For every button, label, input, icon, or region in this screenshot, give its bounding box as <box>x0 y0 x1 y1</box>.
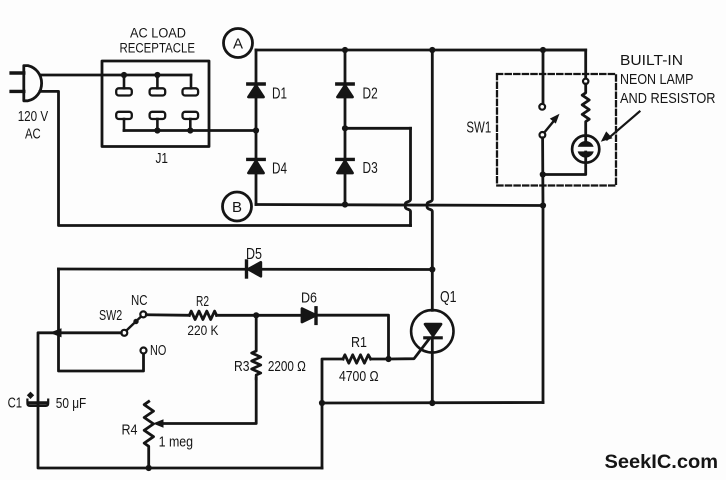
wire D2-D3 midpoint to right column <box>345 127 411 130</box>
svg-text:RECEPTACLE: RECEPTACLE <box>120 40 196 55</box>
svg-text:R4: R4 <box>122 421 138 438</box>
resistor R2 <box>189 311 216 319</box>
junction dot bus left <box>319 400 325 406</box>
wire plug top to receptacle <box>41 74 192 77</box>
C1 plus sign <box>27 392 34 399</box>
node B circle <box>223 192 252 221</box>
label B <box>232 199 242 216</box>
wire cathode bus row <box>322 401 543 404</box>
label NC <box>131 293 148 309</box>
wire R3 bottom to R4 wiper <box>160 379 256 424</box>
wire SW2 pole to C1 <box>38 333 121 402</box>
receptacle contact 3 top <box>183 88 199 95</box>
wire R1 left leg <box>322 359 343 468</box>
label D2 <box>363 86 378 103</box>
wire right AC column with jog over bottom rail <box>405 128 410 225</box>
svg-text:BUILT-IN: BUILT-IN <box>620 53 683 69</box>
junction dot top rail at D2 <box>342 47 348 53</box>
wire lamp bottom return to SW1 <box>543 152 586 175</box>
wire SW1 leg lower <box>541 138 544 403</box>
svg-text:AND RESISTOR: AND RESISTOR <box>620 91 716 107</box>
svg-text:D4: D4 <box>272 161 287 178</box>
label D6 <box>301 289 317 306</box>
receptacle contact 5 bottom <box>150 112 166 119</box>
node A circle <box>224 29 253 58</box>
wire D5 row <box>59 268 433 271</box>
label 120 V AC <box>18 109 49 143</box>
receptacle contact 1 top <box>116 88 132 95</box>
junction dot bottom wire c5 <box>154 127 160 133</box>
svg-text:SW2: SW2 <box>99 308 122 324</box>
switch SW2 lever <box>126 317 141 331</box>
label NO <box>150 343 166 359</box>
receptacle contact 2 top <box>150 88 166 95</box>
svg-text:50 μF: 50 μF <box>56 395 87 412</box>
label SW1 <box>466 120 491 137</box>
wire plug bottom down-right to bridge midpoint (long bottom AC wire) <box>40 91 411 225</box>
switch SW2 lever pivot dot <box>133 319 138 324</box>
svg-text:NO: NO <box>150 343 166 359</box>
svg-text:D2: D2 <box>363 86 378 103</box>
switch SW1 lever arrow <box>545 114 560 133</box>
wire Q1 cathode down <box>431 338 434 403</box>
junction dot SW1 lamp return <box>540 171 546 177</box>
diode D5 (points left) <box>247 261 261 277</box>
svg-text:SW1: SW1 <box>466 120 491 137</box>
junction arrow at left vertical <box>49 328 61 337</box>
wire lamp branch drop <box>584 50 587 79</box>
svg-text:C1: C1 <box>8 395 23 412</box>
svg-text:A: A <box>233 36 243 53</box>
label A <box>233 36 243 53</box>
junction dot cathode bus <box>429 400 435 406</box>
svg-text:Q1: Q1 <box>440 289 457 306</box>
svg-text:D3: D3 <box>363 160 378 177</box>
svg-text:D1: D1 <box>272 86 287 103</box>
junction dot R2/R3/D6 <box>253 312 259 318</box>
potentiometer R4 <box>144 402 153 469</box>
label R4 value 1 meg <box>122 421 194 450</box>
svg-text:R2: R2 <box>196 293 209 310</box>
wire bridge top rail <box>256 49 585 52</box>
wire top rail to lamp corner <box>543 49 586 52</box>
switch SW2 NO terminal <box>141 348 147 354</box>
diode D4 <box>248 159 264 173</box>
label AC LOAD RECEPTACLE <box>120 25 196 55</box>
lead contact2 top <box>156 75 159 88</box>
plug prong bottom <box>11 90 24 93</box>
lead contact6 bottom <box>189 119 192 131</box>
junction dot R4 bottom <box>146 465 152 471</box>
dashed enclosure SW1/lamp <box>497 74 616 186</box>
diode D3 <box>337 159 353 173</box>
diode D1 <box>248 84 264 97</box>
diode D6 (points right) <box>302 308 316 324</box>
junction dot top rail at Q1 column <box>429 47 435 53</box>
wire NC to R2 <box>146 313 189 316</box>
resistor R3 (vertical) <box>252 315 261 378</box>
junction dot left leg receptacle <box>253 127 259 133</box>
label Q1 <box>440 289 457 306</box>
svg-text:NC: NC <box>131 293 148 309</box>
junction dot top wire c2 <box>154 72 160 78</box>
SCR Q1 <box>411 310 453 352</box>
switch SW1 lower terminal <box>540 132 546 138</box>
wire D6 to R1 right leg <box>316 315 389 359</box>
receptacle contact 4 bottom <box>116 112 132 119</box>
lead contact4 bottom <box>123 119 126 131</box>
switch SW2 NC terminal <box>140 311 146 317</box>
svg-text:1 meg: 1 meg <box>159 434 194 450</box>
junction dot R1 right / gate <box>385 356 391 362</box>
svg-text:4700 Ω: 4700 Ω <box>339 368 379 385</box>
svg-text:SeekIC.com: SeekIC.com <box>605 451 719 473</box>
junction dot Q1 column at D5 wire <box>429 266 435 272</box>
svg-text:J1: J1 <box>156 150 169 167</box>
receptacle box J1 <box>102 61 209 147</box>
wire R1 right to Q1 gate <box>371 339 430 360</box>
lamp branch terminal circle <box>583 79 588 84</box>
R4 wiper arrowhead <box>153 419 164 428</box>
annotation arrow to lamp <box>601 112 640 142</box>
lead contact5 bottom <box>156 119 159 131</box>
label BUILT-IN NEON LAMP AND RESISTOR <box>620 53 716 107</box>
svg-text:AC: AC <box>25 127 41 143</box>
wire D5 left drop <box>59 269 144 371</box>
wire R2 to D6 <box>217 314 302 317</box>
junction dot bottom wire c6 <box>187 127 193 133</box>
svg-text:AC LOAD: AC LOAD <box>130 25 186 40</box>
label R2 value 220 K <box>187 293 218 338</box>
resistor R1 <box>343 355 371 363</box>
label C1 value 50 uF <box>8 395 87 412</box>
svg-text:R1: R1 <box>351 334 367 351</box>
diode D2 <box>337 84 353 97</box>
label D1 <box>272 86 287 103</box>
label SW2 <box>99 308 122 324</box>
label R1 value 4700 ohm <box>339 334 379 385</box>
label R3 value 2200 ohm <box>234 358 306 375</box>
junction dot bottom rail at SW1 leg <box>540 202 546 208</box>
wire bridge second leg <box>344 50 347 205</box>
svg-text:220 K: 220 K <box>187 323 218 338</box>
svg-text:120 V: 120 V <box>18 109 49 125</box>
junction dot D2-D3 midpoint <box>342 125 348 131</box>
junction dot top rail at SW1 <box>540 47 546 53</box>
label J1 <box>156 150 169 167</box>
svg-text:B: B <box>232 199 242 216</box>
svg-text:D5: D5 <box>246 246 262 263</box>
wire SW1 leg upper <box>542 50 545 104</box>
switch SW2 pole terminal <box>121 330 127 336</box>
label D5 <box>246 246 262 263</box>
lead contact3 top corner <box>190 75 193 88</box>
plug prong top <box>11 71 24 74</box>
resistor (neon built-in) zigzag <box>582 84 589 146</box>
wire Q1 column top with jog over bottom rail <box>427 50 432 310</box>
wire receptacle bottom row to bridge node <box>124 129 256 132</box>
label D3 <box>363 160 378 177</box>
neon lamp NE1 <box>572 136 599 163</box>
lead contact1 top <box>123 75 126 88</box>
plug P1 (120V AC plug body) <box>24 66 42 101</box>
svg-text:2200 Ω: 2200 Ω <box>268 358 306 375</box>
svg-text:D6: D6 <box>301 289 317 306</box>
svg-text:R3: R3 <box>234 358 250 375</box>
junction dot top wire c1 <box>121 72 127 78</box>
svg-text:NEON LAMP: NEON LAMP <box>620 72 694 88</box>
receptacle contact 6 bottom <box>183 112 199 119</box>
wire bridge left leg <box>255 50 258 205</box>
switch SW1 upper terminal <box>539 104 545 110</box>
wire bridge bottom rail <box>256 205 543 206</box>
capacitor C1 <box>27 400 48 406</box>
label D4 <box>272 161 287 178</box>
wire C1 bottom to ground bus <box>38 406 322 468</box>
junction dot bottom rail at D3 <box>342 201 348 207</box>
